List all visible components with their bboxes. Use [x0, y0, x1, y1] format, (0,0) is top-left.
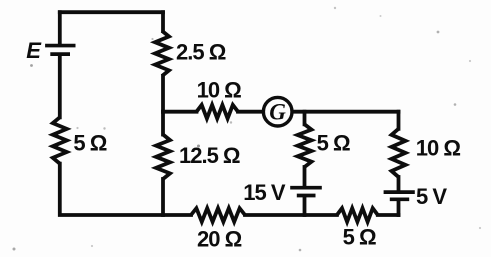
svg-text:5 Ω: 5 Ω — [317, 130, 350, 155]
svg-text:5 Ω: 5 Ω — [73, 131, 106, 156]
svg-text:5 V: 5 V — [416, 184, 447, 209]
resistor 20 ohm — [191, 208, 245, 222]
node B junction — [161, 112, 165, 135]
svg-text:10 Ω: 10 Ω — [197, 78, 242, 103]
resistor 10 ohm middle — [197, 105, 239, 119]
wire R10 right to battery 5V — [397, 177, 401, 190]
wire left-top (E+ to top rail) — [58, 12, 62, 44]
svg-text:2.5 Ω: 2.5 Ω — [176, 39, 226, 64]
resistor 2.5 ohm — [155, 31, 169, 76]
wire R10 to galvanometer — [238, 110, 262, 114]
wire node B to R 10 — [163, 110, 197, 114]
svg-text:G: G — [269, 100, 286, 125]
wire stub to R 5 right — [303, 112, 307, 125]
resistor 5 ohm left — [53, 117, 67, 163]
svg-text:10 Ω: 10 Ω — [416, 136, 461, 161]
wire bottom right (R5 to 5V branch) — [378, 213, 399, 217]
svg-text:E: E — [26, 38, 42, 63]
wire branch2-mid (R2.5 to node B) — [161, 76, 165, 112]
wire branch2-top (top rail to R 2.5) — [161, 12, 165, 31]
resistor 5 ohm bottom — [337, 208, 378, 222]
battery 5V — [384, 190, 415, 194]
resistor 5 ohm right — [298, 124, 312, 167]
galvanometer G — [263, 97, 292, 126]
svg-text:5 Ω: 5 Ω — [343, 225, 376, 250]
wire left-bottom — [60, 164, 191, 215]
resistor 12.5 ohm — [156, 135, 170, 180]
wire bottom mid (R20 to node C) — [245, 213, 337, 217]
svg-text:12.5 Ω: 12.5 Ω — [179, 143, 240, 168]
battery 15V — [290, 186, 322, 190]
wire right-top (rail to R 10 right) — [397, 112, 401, 129]
wire battery 15V to bottom rail — [303, 197, 307, 215]
svg-text:15 V: 15 V — [243, 180, 286, 205]
wire left-mid (E- to R 5ohm) — [58, 56, 62, 117]
wire galvanometer to right column — [293, 110, 398, 114]
resistor 10 ohm right — [392, 129, 406, 177]
svg-text:20 Ω: 20 Ω — [197, 227, 242, 252]
wire top rail — [60, 10, 163, 14]
wire branch2-bottom — [161, 179, 165, 215]
wire battery 5V to bottom rail — [397, 201, 401, 215]
battery E — [45, 44, 75, 48]
wire R5 to battery 15V — [303, 167, 307, 186]
